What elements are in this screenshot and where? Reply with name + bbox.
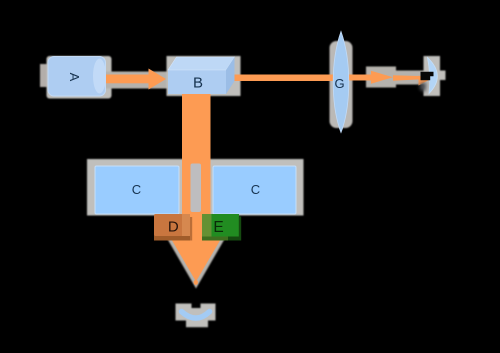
- box B top face: [168, 57, 235, 70]
- glow behind screen crescent: [424, 56, 441, 96]
- filter E shadow strip: [202, 237, 229, 241]
- focus marker shadow: [420, 83, 427, 93]
- beam lens exit rod: [345, 75, 371, 81]
- glow layer: [40, 41, 446, 327]
- bottom detector arc: [182, 312, 210, 319]
- filter D main: [154, 214, 183, 237]
- svg-text:A: A: [67, 73, 82, 82]
- glow behind lens G: [330, 41, 353, 128]
- shadow of big arrow: [165, 234, 228, 289]
- filter E right shadow: [239, 217, 241, 241]
- svg-text:C: C: [251, 182, 260, 197]
- beam spot below tip: [194, 280, 198, 285]
- black focus marker: [421, 72, 434, 80]
- tapering beam to focus: [393, 75, 426, 80]
- svg-text:D: D: [168, 219, 179, 236]
- screen crescent at right: [428, 58, 438, 94]
- big down arrowhead: [170, 237, 222, 282]
- filter D over-band strip: [182, 214, 190, 237]
- svg-text:C: C: [132, 182, 141, 197]
- glow arm right of crescent: [440, 71, 446, 81]
- filter E left strip: [202, 214, 213, 237]
- source A body: [48, 57, 106, 97]
- source A end cap: [93, 59, 106, 94]
- glow blob around bottom detector arc: [176, 304, 192, 312]
- plate C right: [213, 166, 296, 214]
- lens G: [333, 32, 349, 133]
- svg-text:E: E: [213, 219, 223, 236]
- glow tab left of A: [40, 64, 49, 87]
- slit in beam band: [191, 164, 202, 213]
- vertical beam band below B: [182, 94, 211, 238]
- wire arrow A to B head: [149, 69, 167, 90]
- svg-text:B: B: [193, 75, 203, 92]
- glow behind beam arrowhead after lens: [366, 67, 396, 88]
- glow behind A: [47, 56, 112, 99]
- beam B to lens: [234, 75, 333, 82]
- wire arrow A to B shaft: [106, 75, 150, 84]
- focus arrow tip: [419, 76, 429, 86]
- orange beams: [106, 69, 429, 285]
- glow behind B: [167, 56, 241, 96]
- filter E shadow corner: [228, 237, 240, 241]
- svg-text:G: G: [334, 76, 344, 91]
- filter D right shadow: [190, 217, 192, 241]
- mid arrowhead after lens: [371, 71, 393, 84]
- glow behind tapering beam: [393, 71, 427, 85]
- glow behind arrow A-B: [103, 72, 173, 89]
- plate C left: [95, 166, 179, 214]
- filter D shadow strip: [154, 236, 190, 241]
- box B side face: [226, 57, 235, 94]
- filter E main: [212, 214, 240, 237]
- box B front face: [168, 70, 226, 94]
- glow band behind plates C: [87, 159, 304, 216]
